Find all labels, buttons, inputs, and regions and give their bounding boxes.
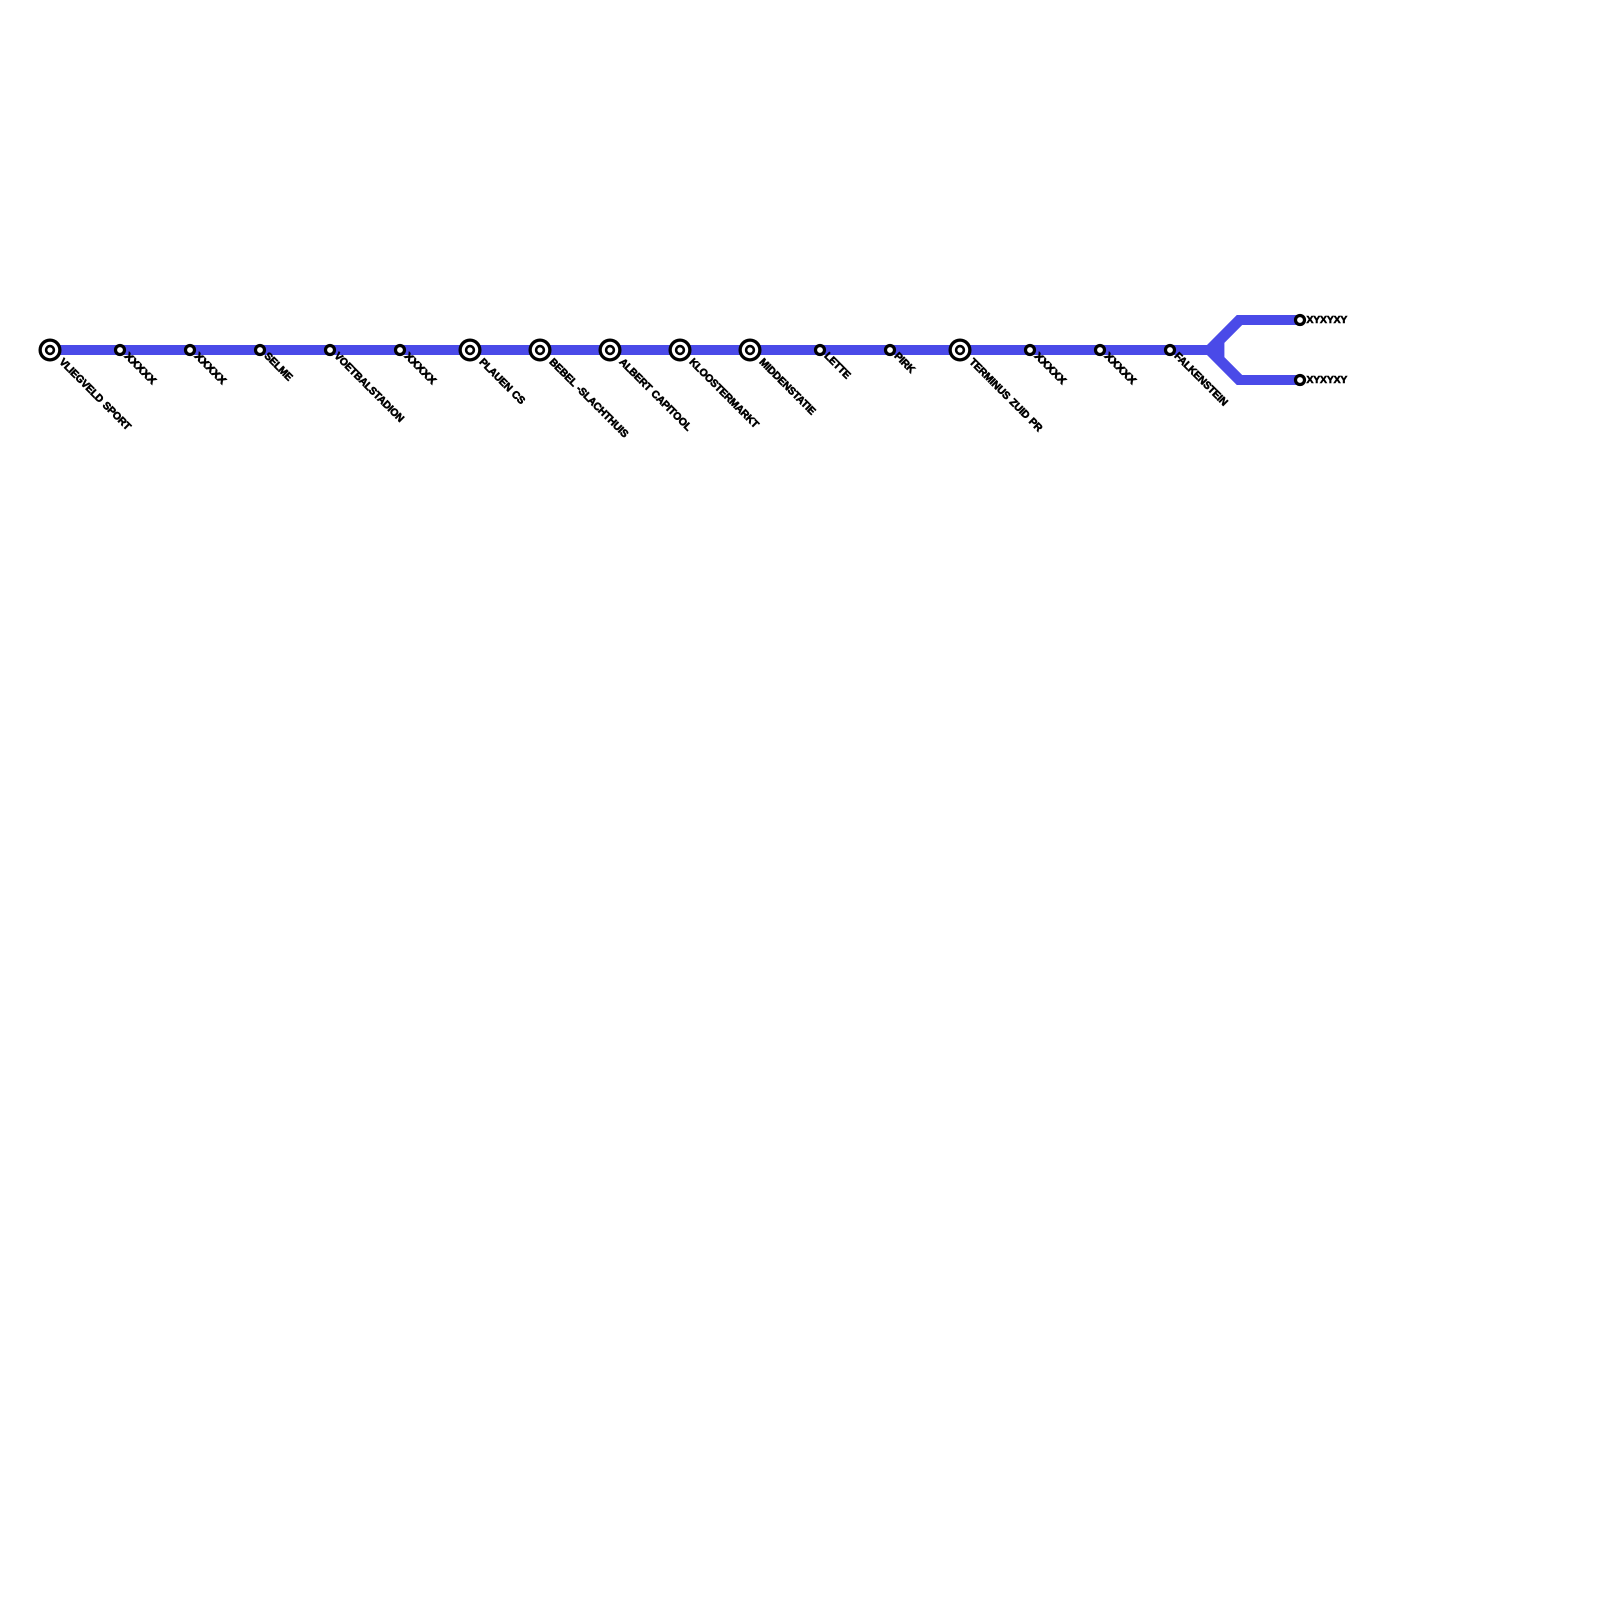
svg-text:XYXYXY: XYXYXY xyxy=(1307,375,1348,386)
svg-text:XYXYXY: XYXYXY xyxy=(1307,315,1348,326)
